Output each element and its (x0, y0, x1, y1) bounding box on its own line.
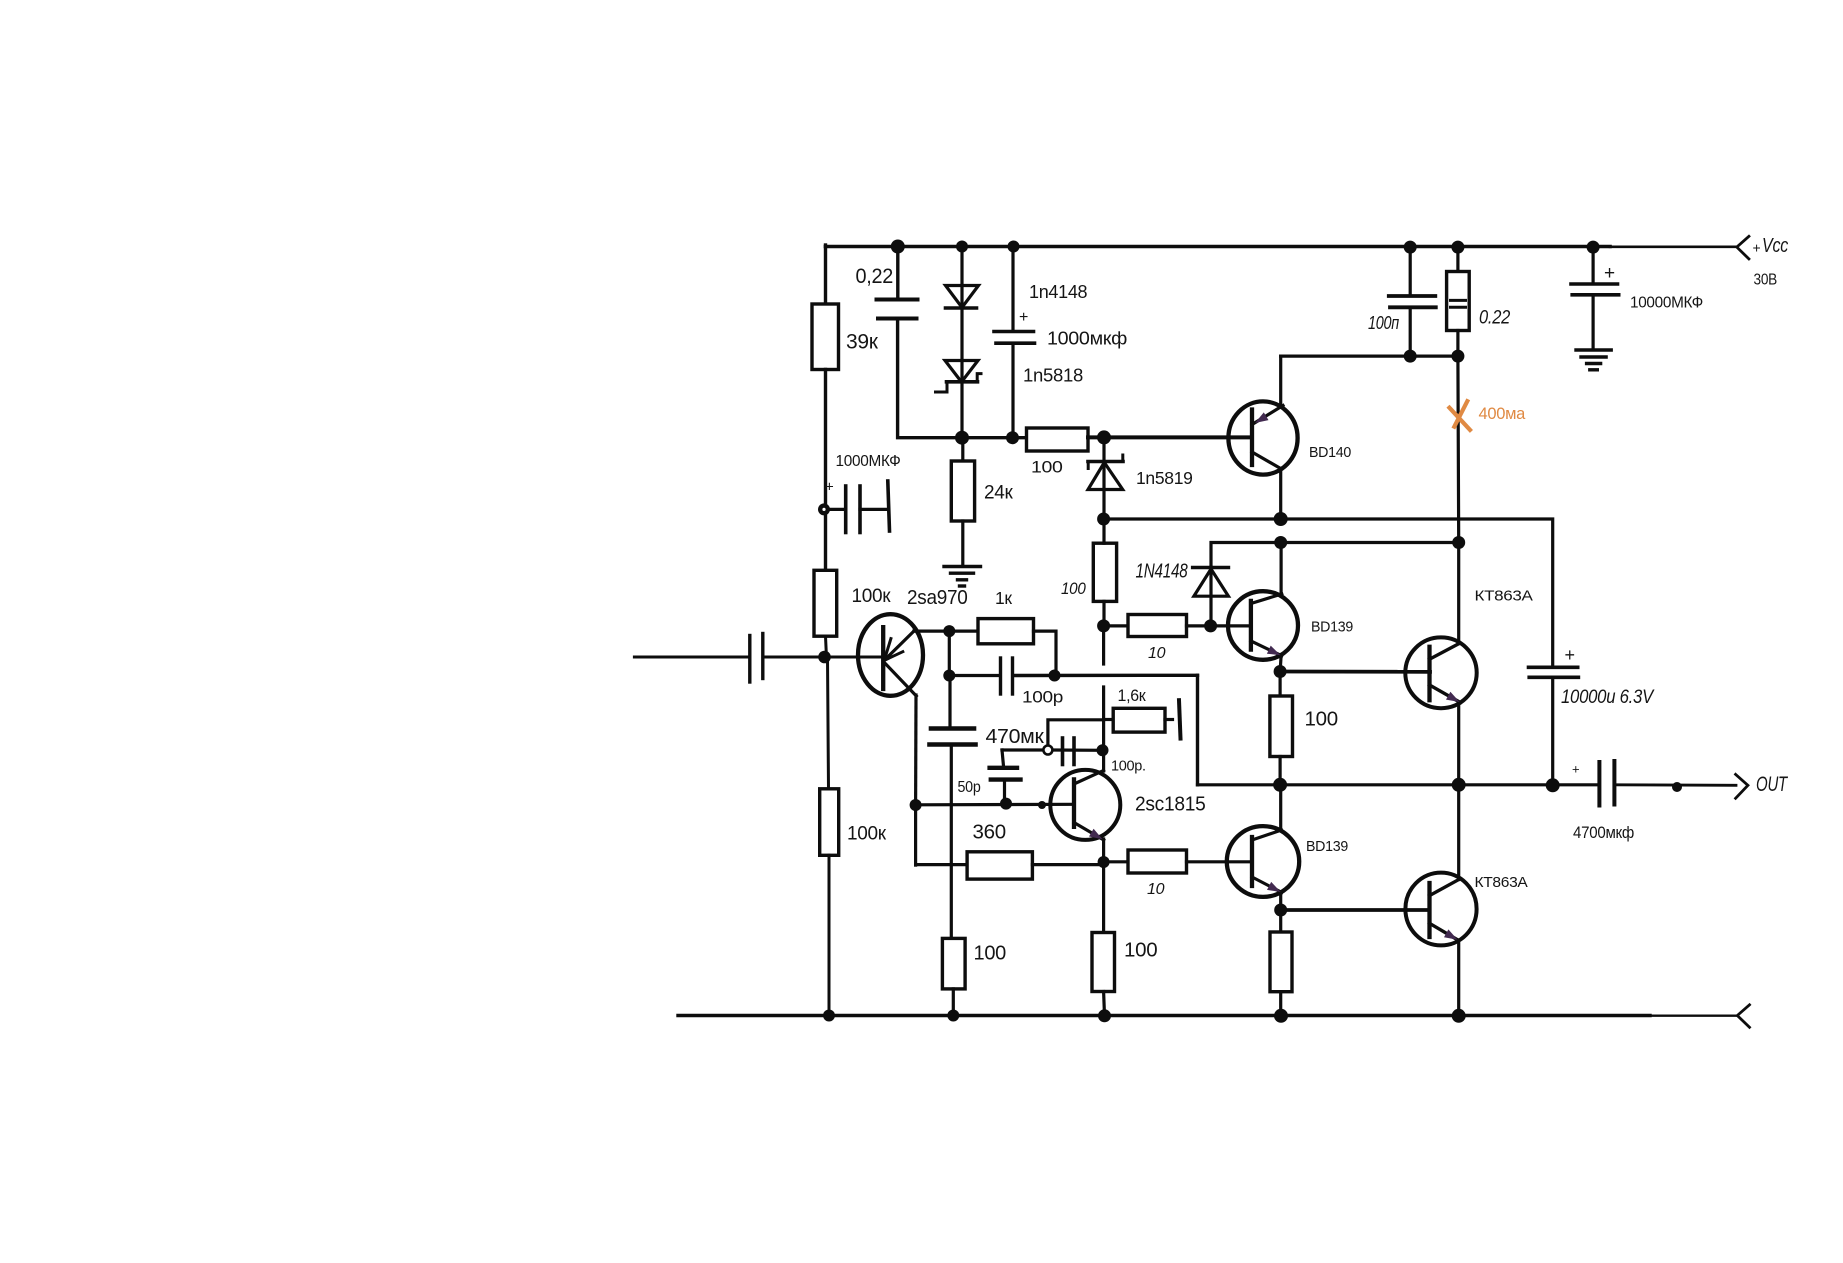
junction dot (1410.2,247.1) (1404, 241, 1417, 254)
junction dot (1280.7,910) (1274, 904, 1287, 917)
svg-text:+: + (825, 479, 834, 496)
wire left branch vertical upper (824, 245, 827, 305)
junction dot (949.3,631.1) (943, 625, 955, 637)
svg-text:+: + (1753, 240, 1761, 256)
svg-text:470мк: 470мк (986, 726, 1045, 748)
ground rail end arrow (1737, 1005, 1749, 1028)
junction dot (1013.5,246.5) (1008, 241, 1020, 253)
KT863A upper emitter arrow (1446, 692, 1460, 702)
svg-text:39к: 39к (846, 331, 879, 354)
wire VAS rail x1104 upper (1102, 627, 1105, 664)
svg-text:0,22: 0,22 (856, 265, 894, 288)
wire driver supply line y519 (1104, 519, 1553, 666)
junction dot (1104.5,1015.8) (1098, 1009, 1111, 1022)
svg-text:10000МКФ: 10000МКФ (1630, 295, 1703, 312)
capacitor C 1000mkf stub top (1011, 247, 1014, 332)
+Vcc arrow (1737, 236, 1749, 259)
svg-text:BD139: BD139 (1306, 838, 1348, 855)
capacitor C 0,22 plates (877, 298, 918, 302)
svg-text:100p: 100p (1022, 689, 1063, 707)
junction dot (1104,437.4) (1097, 430, 1111, 444)
svg-text:100к: 100к (847, 824, 887, 845)
transistor Q KT863A upper (1405, 637, 1476, 708)
junction dot (1281,1015.8) (1274, 1009, 1288, 1023)
svg-text:360: 360 (973, 821, 1006, 844)
svg-text:КТ863А: КТ863А (1475, 874, 1528, 891)
junction dot (1006,803.6) (1000, 798, 1012, 810)
svg-text:4700мкф: 4700мкф (1573, 823, 1634, 842)
svg-text:2sc1815: 2sc1815 (1135, 793, 1206, 816)
wire OUT rail (1198, 783, 1598, 786)
svg-text:100к: 100к (852, 586, 892, 607)
svg-text:1000МКФ: 1000МКФ (836, 453, 901, 470)
svg-text:10000u 6.3V: 10000u 6.3V (1561, 686, 1655, 708)
wire top +Vcc rail (826, 245, 1611, 249)
junction dot (1458.7,1015.8) (1452, 1009, 1466, 1023)
capacitor C 100p comp (1061, 738, 1065, 765)
wire 100 to BD140 base (1088, 435, 1250, 439)
wire main output device rail x1458 (1456, 356, 1460, 542)
svg-text:+: + (1572, 762, 1579, 777)
resistor R 1,6k branch (1104, 718, 1114, 721)
svg-text:100: 100 (1031, 459, 1063, 477)
junction dot (1054.5,675.5) (1049, 670, 1061, 682)
capacitor C 1000mkf plates (994, 330, 1034, 334)
diode D 1n4148 top stub (960, 247, 963, 308)
svg-text:10: 10 (1147, 881, 1165, 898)
BD140 emitter arrow (1255, 412, 1269, 423)
diode D 1n5818 symbol (schottky) (945, 361, 978, 383)
resistor R 100 (VAS emitter) (1092, 933, 1115, 992)
junction dot (953.3,1015.5) (947, 1010, 959, 1022)
transistor Q 2sa970 (858, 614, 923, 696)
svg-text:Vcc: Vcc (1762, 235, 1788, 257)
wire 39k to input node (824, 370, 827, 572)
transistor Q BD140 (1228, 401, 1297, 474)
wire KT863A lower base (1281, 908, 1430, 912)
2sc1815 emitter arrow (1089, 829, 1103, 840)
svg-text:50p: 50p (958, 779, 981, 796)
diode D 1n5819 (schottky) (1102, 440, 1105, 489)
wire 1n5818 to bias node (960, 382, 963, 438)
junction dot (824.5,657) (818, 651, 831, 664)
svg-text:10: 10 (1148, 645, 1166, 662)
wire KT863A upper base (1280, 670, 1430, 674)
svg-text:1n4148: 1n4148 (1029, 282, 1088, 302)
wire 100k upper to input node (826, 636, 827, 658)
transistor Q BD139 lower (1279, 785, 1282, 827)
wire between diodes (960, 308, 963, 381)
wire 2sa970 emitter to node (914, 629, 949, 632)
OUT arrow (1736, 774, 1748, 798)
wire feedback corner down to OUT (1196, 675, 1199, 785)
wire feedback line y675 (948, 633, 951, 676)
svg-text:2sa970: 2sa970 (907, 586, 968, 609)
wire comp line y750 (1002, 748, 1044, 751)
wire 10 upper left stub (1104, 624, 1128, 627)
svg-text:OUT: OUT (1756, 773, 1789, 796)
svg-text:КТ863А: КТ863А (1475, 588, 1533, 605)
capacitor C 10000MKF stub (1591, 247, 1594, 284)
wire input node down to 100k lower (828, 657, 829, 790)
svg-text:24к: 24к (984, 483, 1014, 504)
junction dot (1552.7,785.3) (1546, 778, 1560, 792)
svg-text:+: + (1019, 309, 1028, 326)
svg-text:30В: 30В (1754, 272, 1778, 289)
junction dot (1593.1,247.1) (1587, 241, 1600, 254)
capacitor C 0,22 stub top (896, 247, 899, 300)
wire 1000mkf to bias node (1011, 344, 1014, 438)
diode D 1n4148 symbol (946, 286, 979, 308)
resistor R 10 lower (1104, 860, 1128, 863)
ground under 10000MKF (1576, 348, 1611, 351)
capacitor C 1000MKF left (floating) (824, 508, 844, 511)
transistor Q BD139 upper (1228, 591, 1298, 660)
junction dot (1280.1,784.8) (1273, 778, 1287, 792)
BD139 upper emitter arrow (1267, 646, 1281, 656)
transistor Q KT863A lower (1405, 873, 1476, 946)
resistor R 100 vertical (driver) (1093, 543, 1116, 601)
KT863A lower emitter arrow (1444, 929, 1458, 939)
svg-text:100: 100 (1305, 708, 1338, 731)
junction dot (1458.7,542.5) (1452, 536, 1465, 549)
junction dot (915.6,805) (910, 799, 922, 811)
resistor R 24k (961, 438, 964, 461)
junction dot (1457.9,247.1) (1451, 241, 1464, 254)
junction dot (1210.6,625.9) (1204, 619, 1217, 632)
svg-text:1000мкф: 1000мкф (1047, 328, 1127, 349)
capacitor C 50p (1002, 750, 1004, 766)
capacitor C 10000u 6.3V (1529, 665, 1578, 669)
wire 0,22 down to bias node (898, 319, 962, 438)
junction dot (1103.6,862) (1098, 856, 1110, 868)
junction dot (1280.7,519) (1274, 512, 1288, 526)
junction dot (1042,805) (1038, 801, 1046, 809)
resistor R 100 (470mk leg) (942, 938, 965, 989)
junction dot (897.8,246.5) (891, 240, 905, 254)
svg-text:100п: 100п (1368, 313, 1399, 333)
resistor R 39k (812, 304, 839, 370)
svg-text:100: 100 (1124, 939, 1157, 962)
capacitor C 470mk (948, 676, 951, 728)
svg-text:100p.: 100p. (1111, 759, 1146, 775)
resistor R 100k lower (820, 789, 839, 856)
wire 2sa970 collector down (914, 695, 918, 805)
junction dot (824,509.4) (818, 503, 830, 515)
junction dot (1410.2,356.1) (1404, 350, 1417, 363)
junction dot (1677,787) (1672, 782, 1682, 792)
junction dot (1457.9,356.1) (1451, 350, 1464, 363)
wire BD140 emitter line y356 (1281, 355, 1458, 358)
junction dot (1102.5,750.3) (1097, 744, 1109, 756)
junction dot (962,246.5) (956, 241, 968, 253)
svg-text:100: 100 (1061, 580, 1087, 598)
wire 10 to BD139 base (1187, 624, 1251, 627)
svg-text:+: + (1604, 263, 1615, 284)
wire input to 2sa970 base (764, 656, 882, 659)
junction dot (962,437.7) (955, 431, 969, 445)
svg-text:1,6к: 1,6к (1118, 686, 1147, 705)
wire input left (634, 656, 748, 659)
junction dot (829,1015.5) (823, 1010, 835, 1022)
node open circle (1043, 746, 1052, 755)
svg-text:400ма: 400ма (1479, 405, 1527, 423)
junction dot (1103.6,625.9) (1097, 619, 1110, 632)
junction dot (949.3,675.5) (943, 670, 955, 682)
capacitor C 100p (top) (1409, 247, 1412, 296)
junction dot (1012.5,437.7) (1006, 431, 1019, 444)
orange test X 400ma (1454, 401, 1467, 427)
resistor R 100k upper (814, 570, 837, 636)
transistor Q 2sc1815 (1050, 770, 1120, 840)
wire 1,6k tap (1048, 720, 1104, 750)
resistor R 10 upper (1128, 615, 1187, 637)
wire 2sc1815 base line (916, 803, 1074, 807)
capacitor C 100p feedback (999, 658, 1002, 694)
ground under 24k (944, 565, 981, 568)
capacitor C input coupling (748, 636, 751, 683)
resistor R 100 (BD139u emitter) (1278, 672, 1281, 697)
capacitor C 4700mkf (1597, 762, 1601, 806)
wire bias node horizontal (962, 436, 1027, 439)
junction dot (1103.6,519) (1097, 513, 1110, 526)
purple emitter arrows (1089, 412, 1460, 939)
resistor R 360 (916, 863, 968, 866)
junction dot (1280.1,671.5) (1274, 665, 1287, 678)
resistor R 100 (BD139l emitter) (1279, 910, 1282, 932)
wire bottom ground rail (678, 1014, 1650, 1017)
wire 100k lower to ground rail (828, 855, 831, 1015)
svg-text:1N4148: 1N4148 (1136, 561, 1188, 583)
wire bias line y542 (1211, 543, 1459, 568)
svg-text:1n5819: 1n5819 (1136, 468, 1193, 488)
resistor R 0.22 (1456, 247, 1459, 272)
svg-text:0.22: 0.22 (1479, 308, 1511, 329)
svg-text:1n5818: 1n5818 (1023, 365, 1083, 386)
svg-text:1к: 1к (995, 588, 1012, 608)
resistor R 1k (949, 629, 978, 632)
junction dot (1280.7,542.5) (1274, 536, 1287, 549)
diode D 1N4148 vertical (1193, 566, 1229, 570)
svg-text:BD140: BD140 (1309, 445, 1351, 461)
junction dot (1458.7,784.8) (1452, 778, 1466, 792)
svg-text:BD139: BD139 (1311, 619, 1353, 636)
resistor R 100 horizontal (1027, 428, 1089, 451)
svg-text:+: + (1565, 645, 1575, 665)
BD139 lower emitter arrow (1267, 882, 1281, 892)
svg-text:100: 100 (974, 943, 1007, 965)
